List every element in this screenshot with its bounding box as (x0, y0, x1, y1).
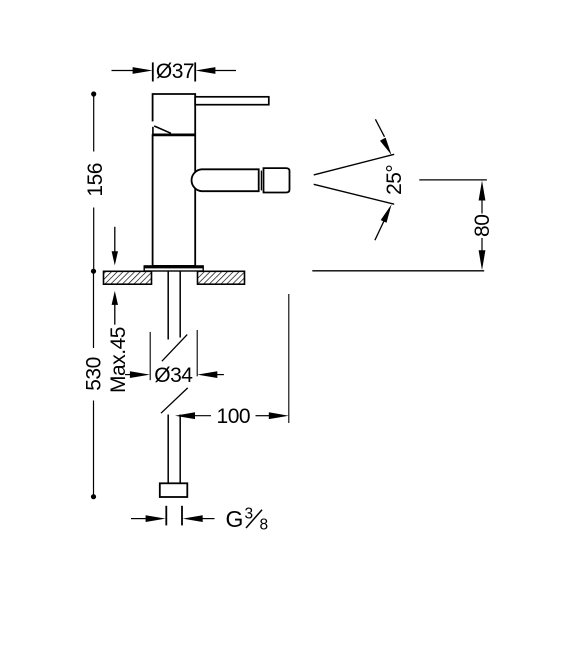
svg-text:Ø34: Ø34 (154, 364, 193, 387)
dimension 80 (479, 181, 486, 271)
svg-text:530: 530 (83, 357, 106, 391)
dimension 80 reference line top (419, 179, 487, 181)
spout ring (260, 171, 262, 191)
angle 25 deg lower line (314, 184, 395, 204)
angle lower leader arrow (375, 204, 392, 240)
countertop left (hatched) (104, 271, 152, 284)
pipe break mark lower (161, 388, 188, 413)
base flange (144, 266, 203, 271)
supply pipe upper segment (168, 271, 180, 339)
svg-text:100: 100 (217, 405, 251, 428)
svg-text:25°: 25° (383, 165, 406, 195)
dimension Ø34 (125, 330, 224, 380)
aerator (264, 168, 290, 192)
faucet body column (153, 135, 196, 266)
angle upper leader arrow (375, 119, 391, 155)
dimension 530 line with dots (91, 269, 96, 500)
pipe break mark upper (162, 335, 187, 362)
svg-text:8: 8 (260, 517, 268, 534)
svg-text:Max.45: Max.45 (107, 327, 130, 393)
svg-text:Ø37: Ø37 (156, 60, 194, 83)
dimension 100 (175, 294, 289, 423)
svg-text:156: 156 (84, 163, 107, 197)
handle head (153, 94, 196, 135)
dimension 80 reference line bottom (312, 270, 484, 272)
countertop right (hatched) (198, 271, 245, 284)
Max.45 arrow up (112, 291, 118, 325)
dimension G 3/8 (131, 506, 215, 526)
supply pipe lower segment (168, 415, 180, 484)
dimension Ø37 (112, 62, 237, 81)
Max.45 arrow down (112, 227, 118, 266)
head bottom diagonal cut (154, 126, 171, 133)
dimension 156 line with dots (91, 91, 96, 271)
svg-text:3: 3 (245, 506, 253, 523)
inlet connector nut (160, 483, 188, 497)
handle lever (195, 97, 269, 105)
label G 3/8 (226, 506, 268, 534)
svg-text:G: G (226, 506, 243, 532)
head/body joint thick line (153, 133, 195, 136)
spout (192, 169, 259, 191)
angle 25 deg upper line (314, 154, 395, 175)
svg-text:80: 80 (471, 215, 494, 237)
